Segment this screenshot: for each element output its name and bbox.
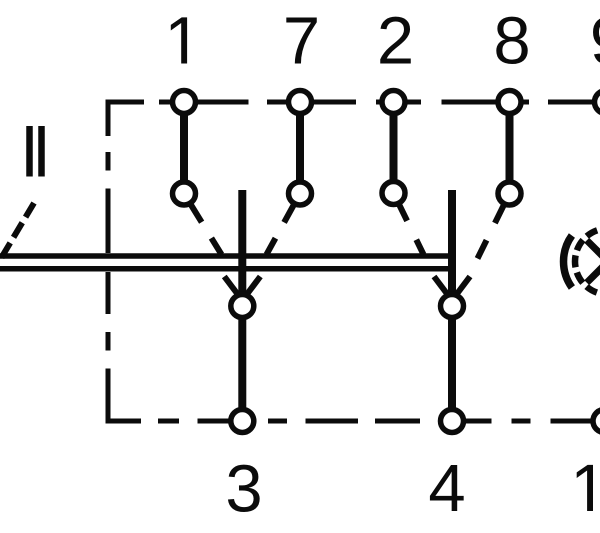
wire terminal2 link	[390, 102, 398, 193]
terminal 10	[593, 410, 600, 433]
terminal 4	[441, 410, 464, 433]
pole wire node 4	[448, 190, 456, 421]
svg-text:9: 9	[590, 4, 600, 79]
dashed actuation line to position II	[2, 203, 35, 258]
lamp L1 outer arc	[564, 236, 572, 288]
enclosure left border (dashed)	[106, 100, 111, 422]
wire terminal8 link	[506, 102, 514, 194]
actuator bar (double line)	[0, 253, 455, 259]
svg-text:3: 3	[225, 452, 262, 527]
svg-text:7: 7	[283, 4, 320, 79]
label 1	[171, 17, 187, 63]
terminal 8	[498, 91, 521, 114]
terminal 9	[595, 91, 600, 114]
bridge contact node pole 4	[441, 295, 464, 318]
contact 1 moving arm (dashed to bar)	[184, 194, 222, 255]
terminal 1	[173, 91, 196, 114]
terminal 7	[289, 91, 312, 114]
contact 2 moving arm (dashed to bar)	[394, 193, 424, 255]
bridge contact fork at pole 3	[224, 277, 239, 297]
enclosure bottom border (dashed)	[106, 419, 600, 424]
wire terminal7 link	[296, 102, 304, 194]
svg-text:4: 4	[428, 451, 465, 526]
contact 7 lower	[289, 182, 312, 205]
terminal 2	[382, 91, 405, 114]
label 10 (only the 1 is visible, 0 is beyond the right edge)	[577, 465, 593, 511]
wire terminal1 link	[180, 102, 188, 194]
bridge contact fork at pole 4	[434, 277, 449, 297]
contact 8 lower	[498, 182, 521, 205]
contact 1 lower	[173, 182, 196, 205]
terminal 3	[231, 410, 254, 433]
pole wire node 3	[238, 190, 246, 421]
enclosure top border (dashed)	[106, 100, 600, 105]
lamp L1 cross	[587, 240, 600, 285]
contact 2 lower	[382, 182, 405, 205]
position marker II	[26, 126, 33, 177]
svg-text:8: 8	[493, 4, 530, 79]
svg-text:2: 2	[377, 4, 414, 79]
lamp L1 dashed ring	[575, 229, 600, 295]
contact 8 moving arm (dashed)	[478, 194, 510, 259]
bridge contact node pole 3	[231, 295, 254, 318]
contact 7 moving arm (dashed to bar)	[267, 194, 301, 255]
